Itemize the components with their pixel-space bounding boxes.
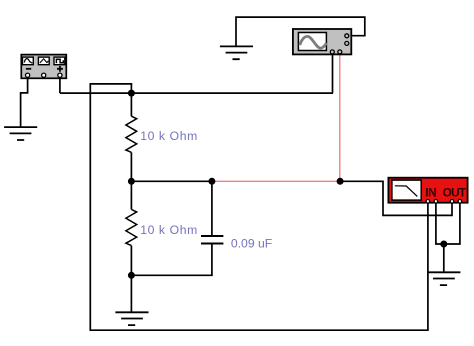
wire: capacitor top lead (211, 181, 213, 235)
wire: bode OUT- terminal down to ground node E (444, 201, 460, 244)
wire: oscilloscope bottom-left terminal down to top rail (332, 52, 334, 93)
bode terminal OUT+ (450, 200, 454, 204)
svg-text:10 k Ohm: 10 k Ohm (140, 129, 198, 143)
wire: capacitor bottom lead to bottom node D (131, 244, 212, 275)
oscilloscope right terminal 1 (345, 34, 349, 38)
wire: left rail down, along bottom, up to bode IN+ (90, 93, 428, 330)
wire (red): oscilloscope channel B down to node C (339, 52, 341, 182)
ground GND2 (top middle) (220, 46, 253, 59)
junction node E (right ground) (440, 241, 447, 248)
wire: oscilloscope right terminal to top ground GND2 (236, 17, 365, 46)
wire: node C to bode plotter OUT+ (340, 181, 452, 215)
oscilloscope bottom terminal A (330, 50, 334, 54)
minus label (26, 68, 31, 70)
ground GND4 (bottom right) (427, 272, 460, 285)
square wave button (54, 57, 65, 65)
oscilloscope XSC1 body (293, 29, 351, 54)
resistor R2 lead top (130, 181, 132, 209)
wire: bode IN- terminal down to ground node E (436, 201, 444, 244)
wire: ground node E to ground GND4 (443, 244, 445, 272)
resistor R1 zigzag 10 k Ohm (126, 116, 137, 152)
junction node D (bottom) (128, 272, 135, 279)
junction node C (red wire corner) (337, 178, 344, 185)
ground GND1 (below function generator) (4, 127, 37, 140)
bode terminal IN+ (426, 200, 430, 204)
wire: function generator plus terminal down (59, 79, 61, 94)
resistor R2 lead bottom (130, 246, 132, 276)
wire: bump jog over top rail into node A (90, 84, 131, 93)
bode plotter lowpass curve (395, 186, 418, 197)
wire: bottom node D down to ground GND3 (130, 275, 132, 312)
oscilloscope right terminal 2 (345, 41, 349, 45)
svg-text:OUT: OUT (443, 186, 467, 200)
function generator XFG1 body (21, 55, 66, 79)
junction node A (top) (128, 90, 135, 97)
svg-text:10 k Ohm: 10 k Ohm (140, 223, 198, 237)
plus label (57, 66, 63, 72)
sine wave button (23, 57, 34, 65)
bode terminal OUT- (458, 200, 462, 204)
wire (red): node B to node C (212, 180, 340, 182)
capacitor C1 plates 0.09 uF (201, 236, 223, 244)
terminal minus (26, 73, 30, 77)
terminal plus (58, 73, 62, 77)
junction node B (capacitor top) (208, 178, 215, 185)
bode terminal IN- (434, 200, 438, 204)
svg-text:IN: IN (425, 186, 436, 200)
resistor R1 lead bottom (130, 152, 132, 181)
svg-text:0.09 uF: 0.09 uF (231, 237, 272, 251)
oscilloscope screen (298, 33, 326, 51)
oscilloscope bottom terminal B (338, 50, 342, 54)
wire: middle row node A2 to capacitor node B (black) (131, 180, 212, 182)
bode plotter XBP1 body (388, 178, 467, 203)
junction node A2 (middle left) (128, 178, 135, 185)
ground GND3 (bottom middle) (115, 312, 148, 325)
wire: function generator minus terminal to ground GND1 (21, 79, 28, 128)
oscilloscope trace sine (300, 36, 327, 48)
resistor R1 lead top (130, 93, 132, 116)
wire: top horizontal rail from generator to oscilloscope drop (60, 92, 333, 94)
bode plotter screen (392, 180, 421, 200)
terminal common (42, 73, 46, 77)
triangle wave button (38, 57, 49, 65)
resistor R2 zigzag 10 k Ohm (126, 209, 137, 245)
